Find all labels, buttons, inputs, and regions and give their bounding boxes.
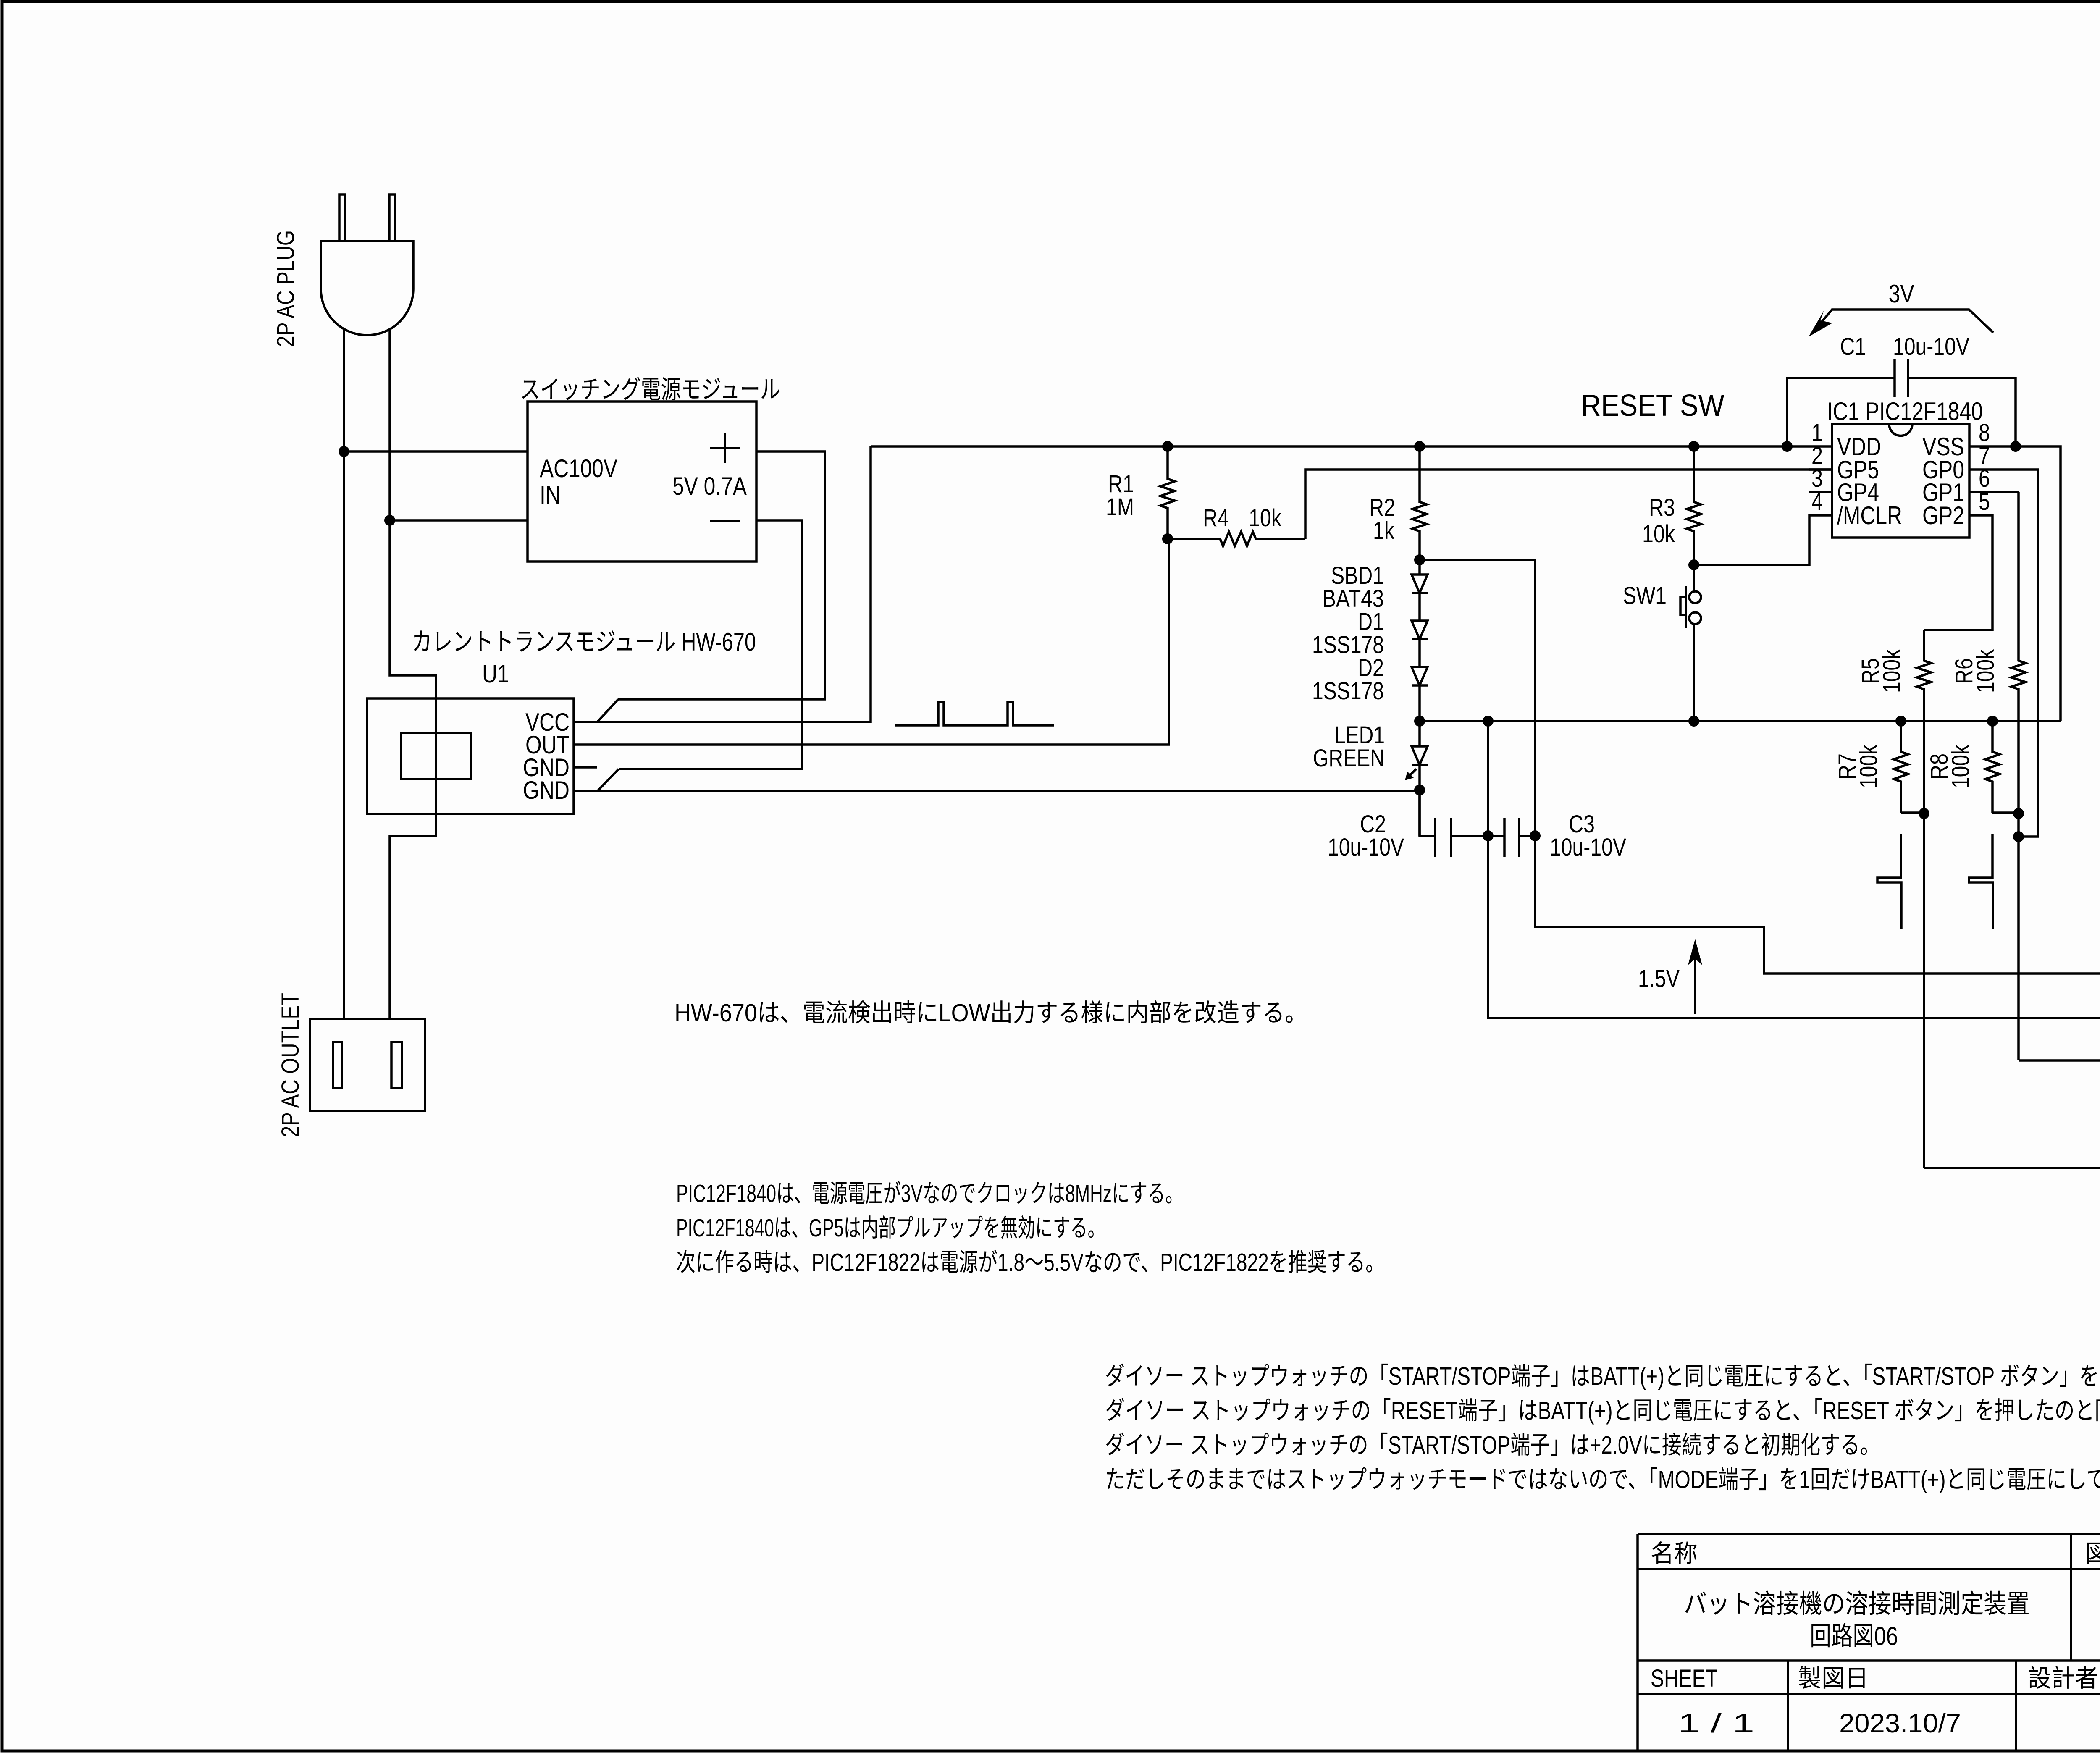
- node LED top: [1414, 716, 1425, 727]
- svg-text:1k: 1k: [1373, 517, 1395, 544]
- svg-text:HW-670は、電流検出時にLOW出力する様に内部を改造する: HW-670は、電流検出時にLOW出力する様に内部を改造する。: [675, 999, 1307, 1027]
- resistor R8: [1985, 721, 2000, 813]
- svg-text:100k: 100k: [1947, 744, 1974, 788]
- svg-text:100k: 100k: [1878, 649, 1906, 693]
- node R8 top: [1987, 716, 1998, 727]
- svg-text:SW1: SW1: [1623, 582, 1667, 609]
- wire VCC diagonal: [597, 699, 618, 722]
- node R8/R6: [2013, 808, 2024, 819]
- svg-text:スイッチング電源モジュール: スイッチング電源モジュール: [520, 375, 780, 404]
- svg-text:名称: 名称: [1651, 1540, 1698, 1567]
- svg-text:ダイソー ストップウォッチの「RESET端子」はBATT(+: ダイソー ストップウォッチの「RESET端子」はBATT(+)と同じ電圧にすると…: [1105, 1397, 2100, 1425]
- wire GND4 pin: [574, 790, 1420, 792]
- resistor R6: [2011, 492, 2026, 1060]
- node R3 bottom: [1688, 559, 1699, 570]
- 3V arrow: [1819, 310, 1993, 333]
- wire plug left pin down: [343, 329, 345, 1019]
- svg-text:SHEET: SHEET: [1651, 1665, 1718, 1692]
- wire C3 right to BATT+: [1535, 836, 2100, 974]
- resistor R1: [1160, 446, 1175, 539]
- minus sign: [710, 520, 740, 522]
- wire PSU plus output: [618, 451, 825, 699]
- svg-text:PIC12F1840は、GP5は内部プルアップを無効にする。: PIC12F1840は、GP5は内部プルアップを無効にする。: [676, 1214, 1105, 1242]
- wire R2 node to BATT+ branch: [1420, 560, 1535, 836]
- wire C2C3 mid to BATT-: [1488, 721, 2100, 1018]
- wire VDD rail: [871, 445, 1832, 448]
- node rail R2: [1414, 441, 1425, 452]
- node R7/R5: [1919, 808, 1929, 819]
- svg-text:10k: 10k: [1642, 520, 1675, 548]
- node SW1 bottom: [1688, 716, 1699, 727]
- wire PSU minus output: [619, 520, 802, 769]
- U1 inner box: [401, 733, 471, 779]
- svg-text:次に作る時は、PIC12F1822は電源が1.8～5.5Vな: 次に作る時は、PIC12F1822は電源が1.8～5.5Vなので、PIC12F1…: [676, 1249, 1385, 1276]
- svg-text:R3: R3: [1649, 494, 1675, 521]
- node rail R3: [1688, 441, 1699, 452]
- node LED cathode: [1414, 785, 1425, 795]
- svg-text:GND: GND: [523, 776, 570, 804]
- U1 box: [367, 698, 574, 814]
- svg-text:2P AC PLUG: 2P AC PLUG: [272, 230, 299, 347]
- svg-text:U1: U1: [482, 660, 509, 688]
- capacitor C2: [1420, 790, 1435, 836]
- resistor R5: [1917, 630, 1931, 1168]
- resistor R4: [1168, 532, 1305, 546]
- wire R4 to GP5: [1305, 470, 1832, 539]
- node R7 top: [1895, 716, 1906, 727]
- svg-text:10u-10V: 10u-10V: [1328, 834, 1404, 861]
- wire R6 line to START/STOP: [2019, 1059, 2100, 1062]
- wire VSS pin8: [1969, 446, 2061, 721]
- svg-text:2P AC OUTLET: 2P AC OUTLET: [277, 993, 304, 1137]
- wire GND4 diagonal: [598, 769, 619, 791]
- node R2 bottom: [1414, 554, 1425, 565]
- svg-text:ただしそのままではストップウォッチモードではないので、「MO: ただしそのままではストップウォッチモードではないので、「MODE端子」を1回だけ…: [1105, 1466, 2100, 1493]
- svg-text:100k: 100k: [1972, 649, 1999, 693]
- diode D1: [1418, 593, 1421, 621]
- AC outlet symbol: [310, 1019, 425, 1111]
- plus sign: [710, 447, 740, 449]
- node C1 left: [1782, 441, 1793, 452]
- resistor R3: [1687, 446, 1701, 565]
- svg-text:回路図06: 回路図06: [1810, 1622, 1898, 1651]
- title block: [1636, 1534, 1639, 1751]
- svg-text:ダイソー ストップウォッチの「START/STOP端子」は+: ダイソー ストップウォッチの「START/STOP端子」は+2.0Vに接続すると…: [1105, 1431, 1880, 1459]
- LED LED1: [1418, 721, 1421, 746]
- wire plug right pin down to jog: [390, 329, 436, 1019]
- svg-text:1.5V: 1.5V: [1638, 965, 1680, 992]
- contact symbol left: [1877, 834, 1901, 929]
- wire AC-L to PSU: [344, 450, 528, 453]
- node AC-L: [339, 446, 349, 457]
- svg-text:IN: IN: [540, 481, 561, 509]
- waveform annotation: [895, 702, 1054, 725]
- wire R5 line to MODE: [1924, 1167, 2100, 1169]
- wire GND3 stub: [574, 766, 597, 769]
- svg-text:10k: 10k: [1249, 504, 1282, 532]
- node GP0 join: [2013, 831, 2024, 842]
- node R1 bottom: [1162, 533, 1173, 544]
- capacitor C3: [1488, 835, 1504, 837]
- svg-text:RESET SW: RESET SW: [1581, 389, 1725, 423]
- wire VCC pin: [574, 446, 871, 722]
- svg-text:R4: R4: [1203, 504, 1229, 532]
- wire VSS rail: [1420, 720, 2061, 722]
- wire R3 node to MCLR: [1694, 515, 1832, 565]
- svg-text:図番: 図番: [2085, 1540, 2100, 1567]
- svg-text:3V: 3V: [1889, 280, 1914, 308]
- pin3 number underline: [1809, 468, 1832, 471]
- node C2C3 top: [1483, 716, 1494, 727]
- contact symbol right: [1969, 834, 1993, 929]
- svg-text:製図日: 製図日: [1798, 1665, 1869, 1692]
- svg-text:IC1 PIC12F1840: IC1 PIC12F1840: [1827, 397, 1983, 425]
- wire GP1 pin6 / R6 line: [1969, 491, 2019, 493]
- svg-text:1 / 1: 1 / 1: [1678, 1708, 1754, 1738]
- node AC-N: [384, 515, 395, 526]
- svg-text:100k: 100k: [1855, 744, 1882, 788]
- node C2 right: [1483, 830, 1494, 841]
- resistor R2: [1412, 446, 1427, 560]
- PSU module box: [528, 402, 756, 562]
- svg-text:設計者: 設計者: [2028, 1665, 2098, 1692]
- node rail R1: [1162, 441, 1173, 452]
- AC plug symbol: [339, 194, 345, 241]
- svg-text:1M: 1M: [1106, 493, 1134, 521]
- wire GP2 pin5: [1924, 515, 1992, 630]
- wire D2 to common node: [1418, 685, 1421, 721]
- wire OUT pin: [574, 539, 1169, 745]
- svg-text:ダイソー ストップウォッチの「START/STOP端子」はB: ダイソー ストップウォッチの「START/STOP端子」はBATT(+)と同じ電…: [1105, 1362, 2100, 1390]
- pin3 GP4 stub: [1809, 491, 1832, 493]
- node C1 right: [2010, 441, 2021, 452]
- svg-text:C1: C1: [1840, 333, 1866, 360]
- svg-text:GREEN: GREEN: [1313, 745, 1385, 772]
- wire GP0 pin7: [1969, 470, 2038, 837]
- 1.5V arrow: [1694, 953, 1696, 1014]
- svg-text:1SS178: 1SS178: [1312, 677, 1384, 705]
- svg-text:PIC12F1840は、電源電圧が3Vなのでクロックは8MH: PIC12F1840は、電源電圧が3Vなのでクロックは8MHzにする。: [676, 1180, 1183, 1207]
- svg-text:5V 0.7A: 5V 0.7A: [672, 472, 747, 500]
- svg-text:/MCLR: /MCLR: [1837, 501, 1902, 530]
- op-amp IC1 box: [1832, 424, 1969, 538]
- svg-text:GP2: GP2: [1922, 501, 1964, 530]
- svg-text:バット溶接機の溶接時間測定装置: バット溶接機の溶接時間測定装置: [1684, 1590, 2030, 1619]
- wire AC-N to PSU: [390, 519, 528, 522]
- svg-text:カレントトランスモジュール HW-670: カレントトランスモジュール HW-670: [412, 628, 756, 656]
- svg-text:10u-10V: 10u-10V: [1893, 333, 1969, 360]
- svg-text:10u-10V: 10u-10V: [1550, 834, 1626, 861]
- svg-text:2023.10/7: 2023.10/7: [1839, 1708, 1961, 1738]
- LED1 arrow: [1409, 769, 1416, 777]
- diode SBD1: [1418, 560, 1421, 575]
- node C3 right: [1530, 830, 1541, 841]
- resistor R7: [1894, 721, 1908, 813]
- diode D2: [1418, 639, 1421, 667]
- svg-text:AC100V: AC100V: [540, 454, 617, 483]
